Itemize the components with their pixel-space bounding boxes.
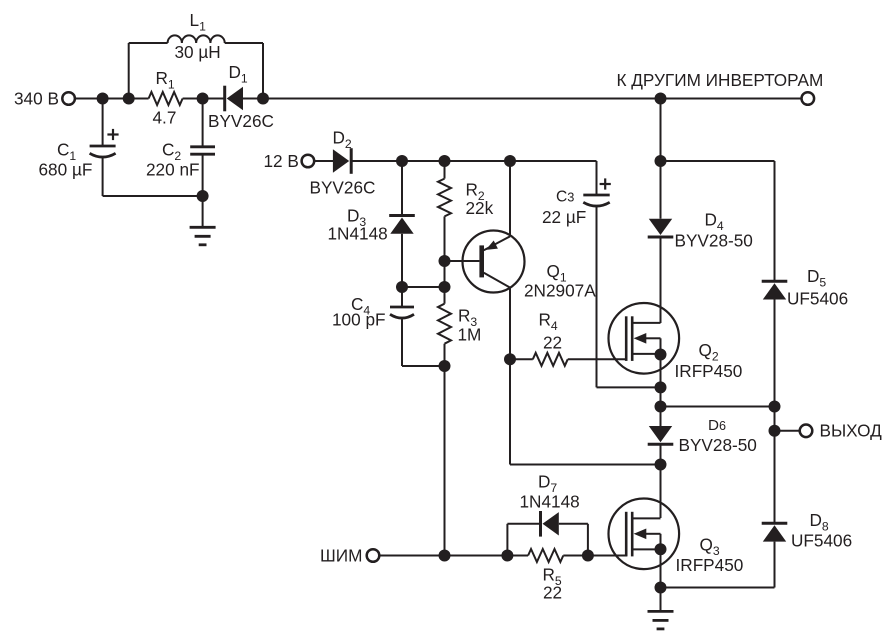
svg-text:BYV26C: BYV26C <box>208 111 274 131</box>
svg-text:100 pF: 100 pF <box>332 310 386 330</box>
svg-text:680 µF: 680 µF <box>39 160 93 180</box>
transistor Q3 <box>609 499 680 570</box>
terminal PWM input <box>367 549 380 562</box>
wire C1 top lead <box>102 99 104 147</box>
wire D3 cathode lead <box>401 161 403 216</box>
wire Q1 collector to D6/Q3 node <box>510 464 661 466</box>
wire D4 branch from top rail <box>660 99 662 219</box>
wire Q1 emitter lead to 12V <box>509 161 511 236</box>
wire R4 left lead <box>510 358 533 360</box>
svg-text:BYV26C: BYV26C <box>310 178 376 198</box>
svg-text:IRFP450: IRFP450 <box>676 555 744 575</box>
wire R1 left lead <box>129 98 149 100</box>
node junction R3/C4 <box>439 360 451 372</box>
wire R3 node to PWM line <box>444 366 446 556</box>
diode D1 <box>223 86 226 112</box>
wire 12V rail <box>351 160 596 162</box>
wire Q3 source down <box>660 549 662 610</box>
wire R5 left lead <box>507 555 528 557</box>
node junction C1/C2 ground <box>197 190 209 202</box>
svg-text:C3: C3 <box>556 188 574 205</box>
wire R4 to Q2 gate <box>568 358 627 360</box>
wire C4 bottom lead <box>401 319 403 366</box>
capacitor C2 <box>190 145 215 148</box>
wire C3 bottom lead <box>596 207 598 387</box>
node junction 12V-side tap on D4 branch <box>655 155 667 167</box>
svg-text:220 nF: 220 nF <box>146 160 200 180</box>
wire L1 branch top-left <box>129 42 168 44</box>
svg-text:ШИМ: ШИМ <box>320 546 362 566</box>
svg-text:IRFP450: IRFP450 <box>675 361 743 381</box>
ground symbol (power) <box>648 610 674 613</box>
diode D5 <box>762 280 788 283</box>
diode D8 <box>762 522 788 525</box>
terminal VYHOD (output) <box>800 425 813 438</box>
wire PWM to R5 <box>379 555 507 557</box>
svg-text:К ДРУГИМ ИНВЕРТОРАМ: К ДРУГИМ ИНВЕРТОРАМ <box>617 70 824 90</box>
node junction R2/Q1 base <box>439 255 451 267</box>
wire D6 to Q3 drain node <box>660 444 662 518</box>
wire Q3 gate lead <box>588 555 627 557</box>
node junction Q2 source / C3 return <box>655 381 667 393</box>
diode D4 <box>648 236 674 239</box>
wire D4 to Q2 drain <box>660 237 662 323</box>
node junction PWM/D7 left <box>501 550 513 562</box>
wire D7 left top <box>507 523 540 525</box>
inductor L1 <box>168 35 225 43</box>
wire D7 left riser <box>506 524 508 556</box>
diode D3 <box>389 214 415 217</box>
node junction PWM/R3 branch <box>439 550 451 562</box>
svg-text:1M: 1M <box>458 325 482 345</box>
label + (C3) <box>600 183 611 185</box>
wire link to D5 branch <box>661 406 775 408</box>
wire Q1 collector down <box>509 288 511 465</box>
node junction 12V/Q1 emitter <box>504 155 516 167</box>
node Q2 source dot <box>655 349 667 361</box>
capacitor C1 <box>90 145 116 148</box>
ground symbol (input filter) <box>190 226 216 229</box>
wire 12V terminal to D2 <box>314 160 333 162</box>
wire top rail to other inverters <box>263 98 802 100</box>
svg-text:22: 22 <box>543 333 562 353</box>
svg-text:4.7: 4.7 <box>153 108 177 128</box>
wire R2 bottom lead <box>444 216 446 261</box>
diode D2 <box>350 148 353 174</box>
svg-text:BYV28-50: BYV28-50 <box>679 435 757 455</box>
resistor R2 <box>438 179 451 217</box>
wire C3 top corner <box>596 161 598 195</box>
wire ground lead (C2) <box>202 196 204 226</box>
node junction D3/C4/link <box>396 281 408 293</box>
terminal 340V input <box>62 92 75 105</box>
label + (C1) <box>107 133 118 135</box>
wire C2 bottom lead <box>202 154 204 196</box>
svg-text:22 µF: 22 µF <box>542 207 586 227</box>
svg-text:D6: D6 <box>708 417 726 434</box>
terminal 12V input <box>302 155 315 168</box>
wire R1 right lead <box>183 98 203 100</box>
wire Q2 source down <box>660 355 662 427</box>
transistor Q2 <box>609 303 680 374</box>
diode D6 <box>648 443 674 446</box>
capacitor C3 <box>583 194 609 197</box>
wire L1 branch left riser <box>128 43 130 99</box>
wire link to R3 top <box>444 261 446 287</box>
wire C1 bottom lead <box>102 158 104 196</box>
node junction D6/Q3 drain <box>655 459 667 471</box>
wire R3 top lead <box>444 287 446 304</box>
svg-text:2N2907A: 2N2907A <box>524 281 596 301</box>
svg-text:BYV28-50: BYV28-50 <box>675 231 753 251</box>
wire D8 to ground node <box>661 587 775 589</box>
svg-text:UF5406: UF5406 <box>791 531 852 551</box>
wire L1 branch top-right <box>225 42 263 44</box>
resistor R3 <box>438 304 451 344</box>
node junction Q2 source / D5 link <box>655 401 667 413</box>
svg-text:30 µH: 30 µH <box>175 42 221 62</box>
diode D7 <box>539 511 542 537</box>
wire L1 branch right riser <box>262 43 264 99</box>
wire C3 to Q2 source node <box>597 386 661 388</box>
wire C4 to R3 node <box>402 365 445 367</box>
node junction 12V/D3 <box>396 155 408 167</box>
wire D7 right riser <box>587 524 589 556</box>
wire C4 top lead <box>401 287 403 307</box>
wire tap to D5 branch <box>661 160 775 162</box>
capacitor C4 <box>390 306 414 309</box>
wire D7 right top <box>559 523 588 525</box>
wire R3 bottom lead <box>444 344 446 366</box>
svg-text:1N4148: 1N4148 <box>328 224 388 244</box>
wire D5 anode down <box>774 300 776 407</box>
wire cross link D3-R3 <box>402 286 445 288</box>
wire R5 right lead <box>563 555 588 557</box>
svg-text:1N4148: 1N4148 <box>520 492 580 512</box>
node junction collector/R4 <box>504 353 516 365</box>
wire D3 anode lead <box>401 234 403 287</box>
svg-text:22k: 22k <box>466 198 494 218</box>
svg-text:ВЫХОД: ВЫХОД <box>820 421 883 441</box>
wire C1 to ground node <box>103 195 203 197</box>
node junction R1/D1/C2 <box>197 93 209 105</box>
svg-text:12 В: 12 В <box>264 151 299 171</box>
wire 340V input to top rail <box>75 98 129 100</box>
wire D5 branch down <box>774 161 776 281</box>
wire output branch <box>774 407 776 524</box>
node junction D5 / output branch <box>769 401 781 413</box>
resistor R4 <box>533 353 568 366</box>
transistor Q1 <box>463 231 525 293</box>
node junction Q3 source / ground <box>655 582 667 594</box>
resistor R5 <box>528 549 563 562</box>
svg-text:22: 22 <box>543 583 562 603</box>
node junction D1/L1 <box>257 93 269 105</box>
svg-text:340 В: 340 В <box>14 89 59 109</box>
wire D8 anode down <box>774 542 776 588</box>
node junction on 340V rail (L1/R1 tap) <box>123 93 135 105</box>
node Q3 source dot <box>655 543 667 555</box>
svg-text:UF5406: UF5406 <box>787 289 848 309</box>
wire C2 top lead <box>202 99 204 147</box>
node junction top rail / D4 branch <box>655 93 667 105</box>
resistor R1 <box>149 92 183 105</box>
wire to output terminal <box>775 430 800 432</box>
node junction output tap <box>769 425 781 437</box>
terminal to other inverters <box>802 92 815 105</box>
node junction link/R3 <box>439 281 451 293</box>
node junction 12V/R2 <box>439 155 451 167</box>
node junction on 340V rail (C1 tap) <box>97 93 109 105</box>
wire Q1 base lead <box>445 260 480 262</box>
wire R2 top lead <box>444 161 446 179</box>
wire D1 cathode lead <box>203 98 225 100</box>
wire D1 anode lead <box>243 98 263 100</box>
node junction R5/D7 right <box>582 550 594 562</box>
